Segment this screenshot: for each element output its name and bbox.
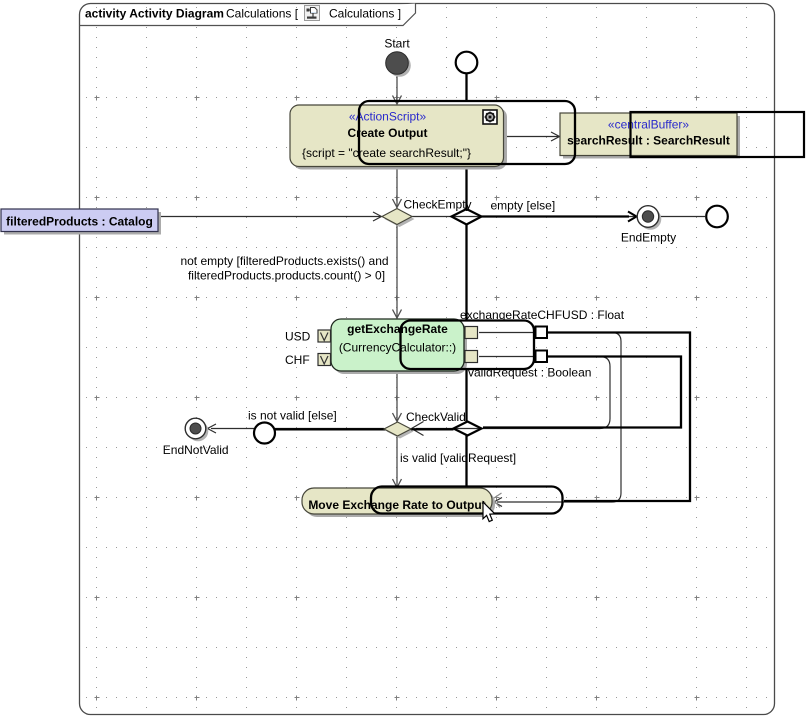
wire CheckEmpty to getExchangeRate (not empty) — [396, 225, 398, 317]
wire Create Output to searchResult buffer — [504, 136, 559, 138]
tab diagram icon — [305, 6, 320, 21]
wire CheckValid to Move Exchange Rate (is valid) — [396, 437, 398, 487]
svg-text:filteredProducts.products.coun: filteredProducts.products.count() > 0] — [188, 269, 385, 283]
ghost circle near EndNotValid — [254, 423, 275, 444]
wire pin validRequest to CheckValid (loop) — [416, 357, 610, 429]
wire is not valid [else] to EndNotValid — [211, 428, 384, 430]
svg-text:CHF: CHF — [285, 353, 310, 367]
svg-text:(CurrencyCalculator::): (CurrencyCalculator::) — [339, 341, 456, 355]
ghost initial circle (drag preview) — [456, 52, 478, 74]
svg-text:«ActionScript»: «ActionScript» — [349, 110, 427, 124]
svg-text:CheckValid: CheckValid — [406, 410, 466, 424]
pin exchangeRateCHFUSD (output) — [465, 327, 478, 339]
frame header tab — [80, 4, 416, 26]
svg-text:USD: USD — [285, 330, 311, 344]
wire ghost is-not-valid preview — [275, 428, 454, 430]
ghost searchResult buffer outline — [631, 112, 805, 157]
ghost Move Exchange Rate outline — [371, 487, 563, 514]
svg-text:filteredProducts : Catalog: filteredProducts : Catalog — [6, 215, 153, 229]
object node filteredProducts : Catalog — [4, 212, 161, 235]
pin CHF — [318, 354, 331, 366]
pin USD — [318, 330, 331, 342]
ghost CheckEmpty diamond — [452, 209, 482, 225]
ghost getExchangeRate outline — [401, 321, 535, 370]
action getExchangeRate — [334, 322, 467, 374]
svg-text:EndEmpty: EndEmpty — [621, 231, 676, 245]
node Start (initial) — [388, 54, 411, 77]
wire ghost vertical spine x=466 — [465, 74, 467, 102]
svg-text:Move Exchange Rate to Output: Move Exchange Rate to Output — [308, 498, 485, 512]
wire pin exchangeRateCHFUSD to Move Exchange Rate (loop) — [479, 333, 621, 503]
decision CheckEmpty — [385, 211, 415, 227]
pin validRequest (output) — [465, 351, 478, 363]
icon gear on Create Output — [483, 110, 497, 124]
svg-text:EndNotValid: EndNotValid — [163, 443, 229, 457]
wire ghost loop T1 (exchangeRate) — [547, 333, 690, 502]
wire EndEmpty to ghost circle — [660, 216, 705, 218]
svg-text:searchResult : SearchResult: searchResult : SearchResult — [567, 134, 730, 148]
svg-text:«centralBuffer»: «centralBuffer» — [608, 118, 689, 132]
wire empty [else] thin segment — [412, 216, 637, 218]
action Create Output — [293, 108, 507, 170]
svg-text:is not valid [else]: is not valid [else] — [248, 409, 337, 423]
wire Start to Create Output — [396, 75, 398, 104]
wire ghost loop T2 (validRequest) — [483, 357, 681, 428]
svg-text:CheckEmpty: CheckEmpty — [404, 198, 472, 212]
svg-text:Calculations [: Calculations [ — [226, 7, 299, 21]
wire getExchangeRate to CheckValid — [396, 372, 398, 421]
action Move Exchange Rate to Output — [305, 491, 495, 517]
svg-text:not empty [filteredProducts.ex: not empty [filteredProducts.exists() and — [180, 254, 388, 268]
node EndEmpty (activity final) — [640, 208, 662, 230]
svg-text:getExchangeRate: getExchangeRate — [347, 322, 448, 336]
svg-text:Start: Start — [384, 37, 410, 51]
ghost pin validRequest — [536, 351, 548, 363]
ghost Create Output outline — [359, 101, 575, 164]
svg-text:empty [else]: empty [else] — [491, 199, 556, 213]
svg-text:activity Activity Diagram: activity Activity Diagram — [85, 7, 224, 21]
ghost pin exchangeRate — [536, 327, 548, 339]
centralBuffer searchResult — [563, 116, 740, 159]
svg-text:{script = "create searchResult: {script = "create searchResult;"} — [302, 146, 471, 160]
wire Create Output to CheckEmpty — [396, 167, 398, 207]
ghost CheckValid diamond — [454, 422, 482, 436]
svg-text:is valid [validRequest]: is valid [validRequest] — [400, 451, 516, 465]
node EndNotValid (activity final) — [188, 421, 209, 442]
wire filteredProducts to CheckEmpty — [158, 216, 381, 218]
ghost circle after EndEmpty — [706, 206, 728, 228]
svg-text:Calculations ]: Calculations ] — [329, 7, 401, 21]
mouse cursor — [483, 502, 495, 522]
decision CheckValid — [387, 425, 414, 439]
wire ghost empty [else] with arrowhead at EndEmpty — [482, 215, 630, 217]
